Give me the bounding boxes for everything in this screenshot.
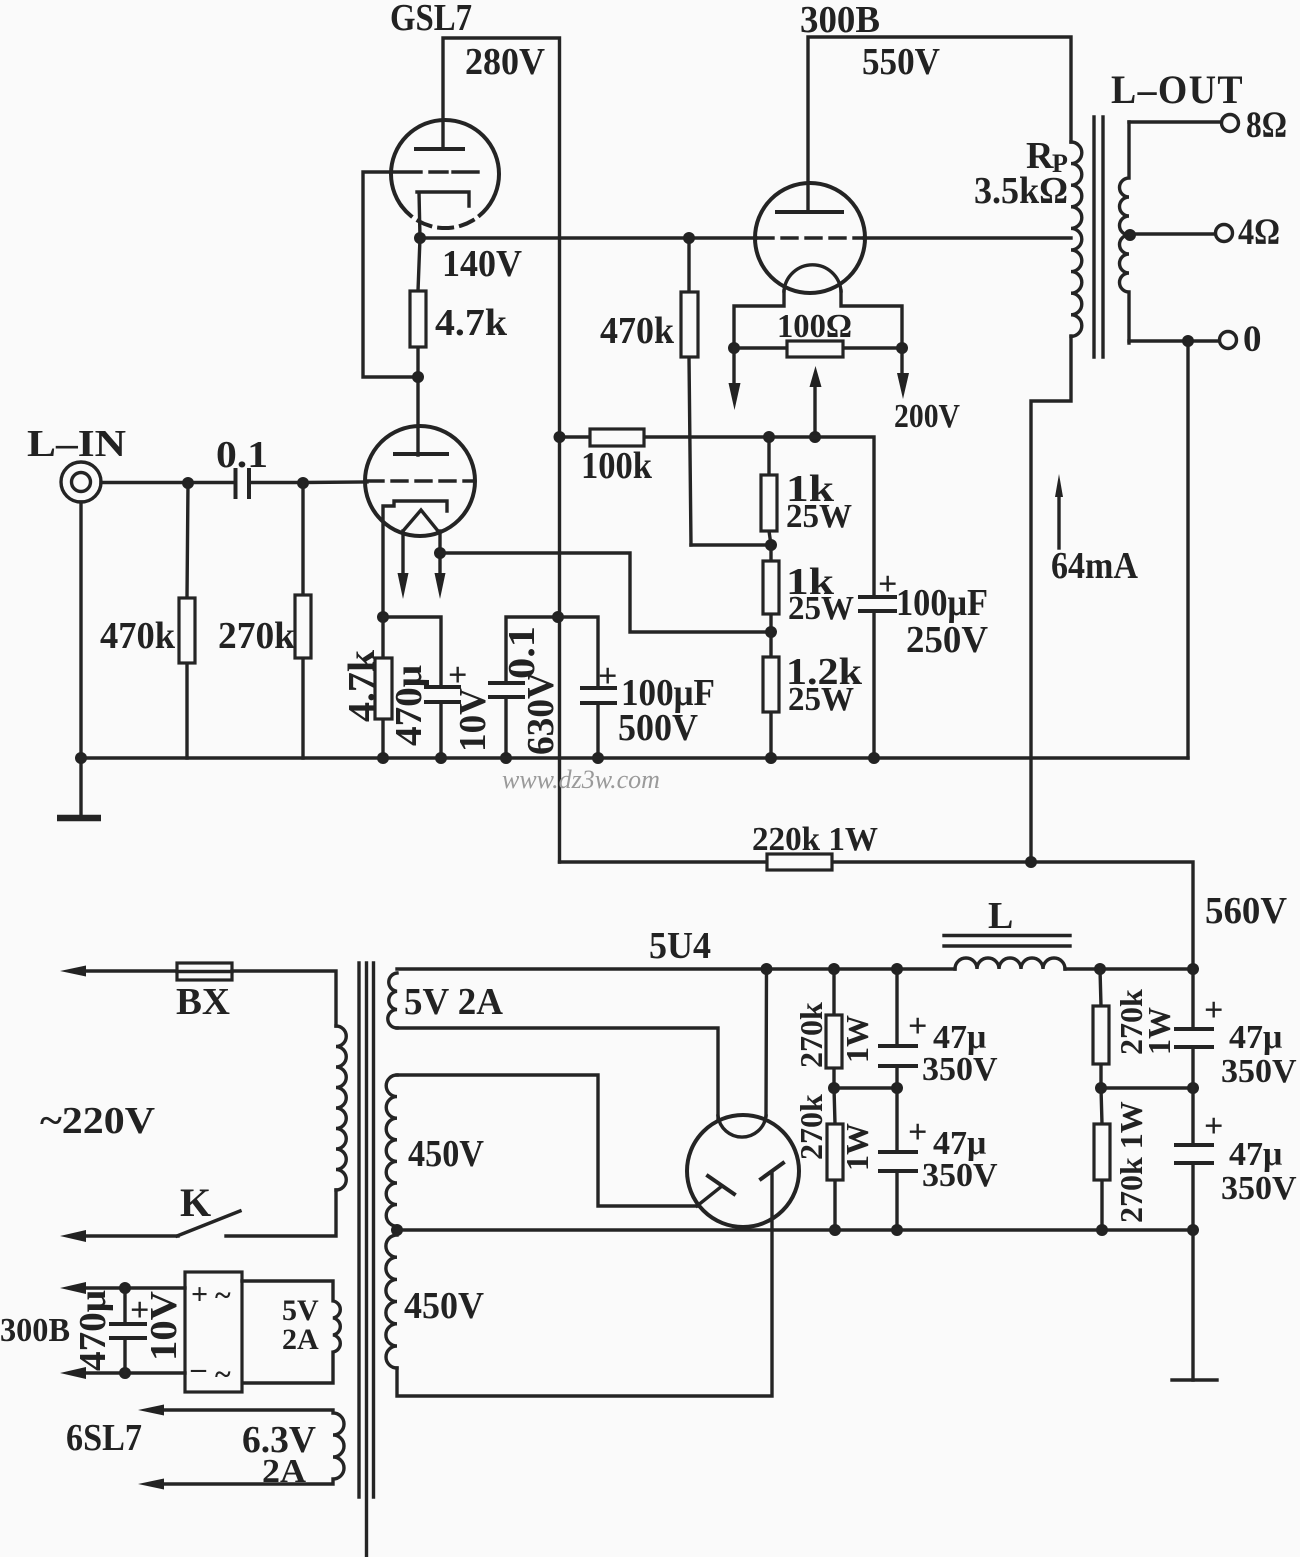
OPT core <box>1094 117 1103 357</box>
wire 280V top loop <box>443 38 560 862</box>
node 220k line OPT feed <box>1025 856 1037 868</box>
svg-text:630V: 630V <box>520 671 562 755</box>
wire pot left lead <box>734 346 787 349</box>
wire fuse to primary <box>232 971 336 1026</box>
svg-text:470k: 470k <box>100 615 176 657</box>
terminal 8R <box>1222 115 1239 132</box>
resistor 270k 1W B-upper body <box>1093 1006 1109 1064</box>
resistor 470k input leads <box>187 483 188 758</box>
tube U1a cathode <box>417 192 469 238</box>
terminal 0 <box>1220 332 1237 349</box>
svg-text:L–IN: L–IN <box>27 423 126 465</box>
svg-text:4.7k: 4.7k <box>435 302 508 344</box>
capacitor 47u 350V B-upper wiring <box>1191 969 1194 1088</box>
resistor 470k input body <box>179 598 195 663</box>
resistor 270k 1W B-upper leads <box>1100 969 1101 1088</box>
node rail at B+ line <box>554 431 566 443</box>
svg-text:0: 0 <box>1243 319 1262 360</box>
svg-text:350V: 350V <box>1221 1170 1297 1207</box>
capacitor 0.1 coupling plates <box>236 470 250 497</box>
svg-text:300B: 300B <box>800 0 880 41</box>
arrow 300B heater - <box>60 1367 86 1379</box>
resistor 4.7k (SRPP) body <box>410 291 426 347</box>
capacitor 100uF 500V plates <box>582 688 615 703</box>
svg-text:+: + <box>1204 1108 1223 1145</box>
svg-text:GSL7: GSL7 <box>390 0 472 39</box>
svg-text:47μ: 47μ <box>1229 1019 1282 1056</box>
OPT primary bottom feed <box>1031 336 1071 862</box>
svg-text:350V: 350V <box>1221 1053 1297 1090</box>
node below 4.7k <box>412 371 424 383</box>
node input ground <box>75 752 87 764</box>
capacitor 47u 350V A-lower plates <box>880 1152 916 1171</box>
node ground rail 270kA <box>829 1224 841 1236</box>
wire grid line right of 300B to OPT primary tap <box>864 236 1071 239</box>
tube V3 filament right lead to B+ <box>764 969 768 1116</box>
svg-text:270k: 270k <box>793 1094 829 1160</box>
capacitor 470u cathode wiring <box>383 617 441 758</box>
resistor 270k 1W A-upper body <box>826 1015 842 1068</box>
capacitor 0.1 630V plates <box>490 683 523 697</box>
node 1.2k junction <box>765 626 777 638</box>
svg-text:270k 1W: 270k 1W <box>1113 1101 1149 1223</box>
svg-text:450V: 450V <box>404 1285 485 1327</box>
wire 450V2 bottom to 5U4 right plate <box>397 1172 772 1396</box>
svg-text:+: + <box>878 566 897 603</box>
wire cap to grid <box>249 480 367 484</box>
svg-text:2A: 2A <box>282 1323 319 1356</box>
svg-text:1W: 1W <box>839 1123 875 1171</box>
tube U1b plate <box>395 452 447 456</box>
capacitor 470u 10V heater plates <box>111 1324 145 1338</box>
tube U1b GSL7 lower triode envelope <box>365 426 475 536</box>
svg-text:–: – <box>190 1352 207 1385</box>
svg-text:64mA: 64mA <box>1051 545 1138 587</box>
wire 450V1 top to 5U4 left plate <box>397 1075 697 1206</box>
node 470u heater top <box>119 1282 131 1294</box>
wire B mid <box>1101 1086 1193 1089</box>
node 270k tap <box>297 477 309 489</box>
svg-text:10V: 10V <box>452 687 494 752</box>
capacitor 47u 350V B-lower plates <box>1176 1145 1212 1163</box>
wire bridge + out <box>84 1286 185 1289</box>
node 4.7k cathode ground <box>377 752 389 764</box>
svg-text:100k: 100k <box>581 445 653 487</box>
capacitor 470u plates <box>426 687 459 702</box>
svg-text:1W: 1W <box>1141 1007 1177 1055</box>
svg-text:450V: 450V <box>408 1133 484 1175</box>
svg-text:200V: 200V <box>894 398 960 435</box>
svg-text:270k: 270k <box>218 615 296 657</box>
svg-text:8Ω: 8Ω <box>1246 105 1287 146</box>
choke L core <box>944 936 1070 947</box>
switch K blade <box>177 1211 240 1236</box>
node 1k chain top <box>763 431 775 443</box>
tube U1a grid (dashed) <box>430 170 478 173</box>
svg-text:350V: 350V <box>922 1157 998 1194</box>
node 140V junction <box>414 232 426 244</box>
power transformer primary coil <box>336 1026 346 1190</box>
svg-text:4.7k: 4.7k <box>341 649 383 722</box>
resistor 1.2k 25W body <box>763 657 779 712</box>
capacitor 100uF 500V wiring <box>558 617 598 758</box>
resistor 470k 300B grid leads <box>689 238 691 545</box>
svg-text:K: K <box>180 1180 211 1225</box>
node B mid right <box>1187 1082 1199 1094</box>
svg-text:1W: 1W <box>839 1015 875 1063</box>
resistor 220k 1W body <box>767 854 832 870</box>
capacitor 100uF 250V wiring <box>872 611 875 758</box>
node HV center tap <box>391 1224 403 1236</box>
choke L coil <box>955 958 1065 969</box>
wire 470k bottom to chain <box>691 543 771 546</box>
svg-text:300B: 300B <box>0 1312 70 1349</box>
node 1k junction mid <box>765 539 777 551</box>
node filament B+ <box>761 963 773 975</box>
svg-text:L: L <box>988 895 1013 937</box>
arrow filament supply left <box>732 348 735 386</box>
resistor 270k grid body <box>295 595 311 658</box>
wire jack to ground <box>79 502 82 818</box>
arrow mains top <box>60 966 86 977</box>
OPT secondary coil <box>1120 122 1130 343</box>
svg-text:~: ~ <box>215 1279 231 1312</box>
wire primary bottom to switch <box>226 1190 336 1236</box>
svg-text:47μ: 47μ <box>1229 1136 1282 1173</box>
svg-text:250V: 250V <box>906 619 989 661</box>
wire B+ rail right of choke <box>1065 967 1193 970</box>
svg-text:350V: 350V <box>922 1051 998 1088</box>
tube U1b cathode <box>383 501 447 617</box>
svg-text:4Ω: 4Ω <box>1238 212 1280 253</box>
svg-text:280V: 280V <box>465 41 546 83</box>
node cathode junction <box>377 611 389 623</box>
node 1.2k ground <box>765 752 777 764</box>
wire 5V bottom to 5U4 filament <box>397 1028 718 1120</box>
wire secondary top to 8R <box>1129 120 1221 123</box>
arrow 300B heater + <box>60 1282 86 1294</box>
svg-text:220k 1W: 220k 1W <box>752 821 878 858</box>
tube U1a plate <box>416 147 463 151</box>
svg-text:5V 2A: 5V 2A <box>404 981 504 1023</box>
wire 0 terminal down to ground rail <box>1186 341 1189 758</box>
pot wiper arrow <box>813 384 816 435</box>
resistor 100k body <box>590 429 644 446</box>
node input 470k tap <box>182 477 194 489</box>
arrow 64mA <box>1057 495 1060 548</box>
rectifier bridge 300B heater box <box>185 1272 242 1392</box>
svg-text:6SL7: 6SL7 <box>66 1417 142 1459</box>
resistor 1k 25W no1 body <box>761 475 777 531</box>
svg-text:25W: 25W <box>786 498 852 535</box>
svg-text:~220V: ~220V <box>40 1100 156 1142</box>
wire heater bias to 1k junction <box>440 553 771 632</box>
svg-text:www.dz3w.com: www.dz3w.com <box>502 765 660 794</box>
capacitor 0.1 630V wiring <box>506 617 558 758</box>
node 100uF250V ground <box>868 752 880 764</box>
resistor 270k 1W A-lower body <box>827 1124 843 1180</box>
svg-text:270k: 270k <box>793 1002 829 1068</box>
svg-text:500V: 500V <box>618 707 699 749</box>
wire 300B plate to OPT top <box>808 37 1071 212</box>
node B+ 47u A top <box>891 963 903 975</box>
svg-text:470μ: 470μ <box>388 665 430 746</box>
capacitor 47u 350V B-upper plates <box>1176 1029 1212 1047</box>
tube V3 right plate <box>761 1163 783 1179</box>
node 470u heater bottom <box>119 1367 131 1379</box>
arrow 6.3V bottom <box>138 1479 164 1490</box>
tube V2 plate <box>777 210 842 214</box>
node A mid left <box>828 1082 840 1094</box>
capacitor 470u 10V heater wiring <box>123 1288 126 1373</box>
OPT primary coil <box>1071 142 1082 336</box>
winding 6.3V coil <box>162 1410 344 1484</box>
winding 5V rect coil <box>242 1281 340 1383</box>
capacitor 47u 350V A-lower wiring <box>895 1088 898 1230</box>
node ground rail 47uA <box>891 1224 903 1236</box>
svg-text:470μ: 470μ <box>72 1290 114 1371</box>
node B mid left <box>1095 1082 1107 1094</box>
svg-text:+: + <box>908 1114 927 1151</box>
node 0.1 ground <box>500 752 512 764</box>
capacitor 47u 350V A-upper wiring <box>895 969 898 1088</box>
terminal 4R <box>1216 225 1233 242</box>
resistor 1.2k 25W leads <box>769 632 772 758</box>
svg-text:550V: 550V <box>862 41 941 83</box>
winding 5V2A rectifier coil <box>388 973 397 1028</box>
resistor 1k 25W no1 leads <box>769 437 771 545</box>
heater lead right with arrow <box>438 531 441 575</box>
ground rail main <box>80 756 1188 759</box>
node PSU rail right <box>1187 1224 1199 1236</box>
arrow mains bottom <box>60 1230 86 1242</box>
ground symbol input <box>57 815 101 822</box>
svg-text:0.1: 0.1 <box>216 434 268 476</box>
resistor 4.7k (SRPP) lead <box>418 238 420 455</box>
svg-text:+: + <box>1204 992 1223 1029</box>
wire PSU ground stub <box>1191 1230 1194 1380</box>
resistor 270k 1W B-lower leads <box>1101 1088 1102 1230</box>
svg-text:~: ~ <box>215 1358 231 1391</box>
svg-text:+: + <box>908 1008 927 1045</box>
svg-text:L–OUT: L–OUT <box>1111 67 1244 112</box>
svg-text:100μF: 100μF <box>896 582 988 624</box>
resistor 4.7k cathode body <box>375 658 392 719</box>
node 100uF500V ground <box>592 752 604 764</box>
arrow 6.3V top <box>138 1405 164 1416</box>
transformer core <box>359 963 374 1556</box>
winding 450V no1 coil <box>386 1075 397 1226</box>
tube V3 5U4 envelope <box>687 1115 799 1227</box>
tube V2 300B envelope <box>755 183 865 293</box>
wire bridge - out <box>84 1371 185 1374</box>
ground symbol PSU <box>1172 1378 1217 1381</box>
resistor 4.7k cathode leads <box>381 617 384 758</box>
node hum pot right <box>896 342 908 354</box>
node hum pot left <box>728 342 740 354</box>
tube V3 filament arc <box>718 1116 766 1137</box>
resistor 270k 1W B-lower body <box>1094 1124 1110 1180</box>
resistor 1k 25W no2 body <box>763 561 779 614</box>
node heater bias tap <box>434 547 446 559</box>
input jack <box>61 462 101 502</box>
tube U1b heater <box>403 510 438 531</box>
fuse BX <box>177 963 232 980</box>
node B+ 270k A top <box>828 963 840 975</box>
svg-text:+: + <box>598 658 617 695</box>
arrow filament supply right <box>900 348 903 376</box>
resistor 470k 300B grid body <box>681 292 698 357</box>
wire grid feedback U1a <box>363 172 421 377</box>
wire pot right lead <box>843 346 902 349</box>
winding 450V no2 coil <box>386 1235 397 1368</box>
svg-text:10V: 10V <box>143 1290 185 1361</box>
svg-text:BX: BX <box>176 981 230 1023</box>
wire secondary bottom to 0 <box>1129 339 1219 342</box>
potentiometer 100R body <box>787 341 843 357</box>
svg-text:25W: 25W <box>788 681 854 718</box>
resistor 270k 1W A-upper leads <box>832 969 835 1088</box>
node 470u ground <box>435 752 447 764</box>
wire 5V top = B+ rail left <box>397 967 955 970</box>
svg-text:560V: 560V <box>1205 890 1288 932</box>
svg-text:0.1: 0.1 <box>501 626 543 679</box>
svg-text:3.5kΩ: 3.5kΩ <box>974 170 1068 212</box>
resistor 1k 25W no2 leads <box>769 545 772 632</box>
svg-text:140V: 140V <box>442 243 523 285</box>
tube V3 left plate <box>697 1186 722 1206</box>
wire mains top to fuse <box>84 969 177 972</box>
tube V2 filament arc <box>784 265 841 291</box>
cathode rail 100k <box>560 437 875 597</box>
node B+ 270k B top <box>1094 963 1106 975</box>
ground rail PSU <box>397 1228 1193 1231</box>
tube U1a GSL7 upper triode envelope <box>391 120 499 228</box>
node B+ 560V corner <box>1187 963 1199 975</box>
svg-text:+: + <box>191 1278 208 1311</box>
filament lead right <box>841 291 902 348</box>
capacitor 100uF 250V plates <box>860 597 895 611</box>
wire input to cap <box>101 481 234 484</box>
node B+ feed cap junction <box>552 611 564 623</box>
capacitor 47u 350V A-upper plates <box>880 1046 916 1066</box>
wire A mid <box>834 1086 897 1089</box>
resistor 270k 1W A-lower leads <box>834 1088 835 1230</box>
capacitor 47u 350V B-lower wiring <box>1191 1088 1194 1230</box>
node secondary tap <box>1124 229 1136 241</box>
svg-text:5U4: 5U4 <box>649 925 711 967</box>
node 470k top <box>683 232 695 244</box>
node 0 terminal ground tap <box>1182 335 1194 347</box>
wire tap to 4R <box>1130 232 1215 235</box>
heater lead left with arrow <box>401 531 404 575</box>
svg-text:25W: 25W <box>788 590 854 627</box>
node PSU rail 270kB <box>1096 1224 1108 1236</box>
wire mains bottom <box>84 1234 178 1237</box>
node A mid right <box>891 1082 903 1094</box>
wire 220k B+ line <box>560 862 1194 969</box>
tube U1b grid (dashed) <box>368 479 473 482</box>
node wiper rail <box>809 431 821 443</box>
wire grid drive line to 300B <box>420 236 756 239</box>
filament lead left <box>734 291 784 348</box>
resistor 270k grid leads <box>301 483 304 758</box>
svg-text:100Ω: 100Ω <box>777 308 852 345</box>
tube V2 grid (dashed) <box>758 236 862 239</box>
svg-text:2A: 2A <box>262 1453 306 1490</box>
svg-text:470k: 470k <box>600 310 675 352</box>
